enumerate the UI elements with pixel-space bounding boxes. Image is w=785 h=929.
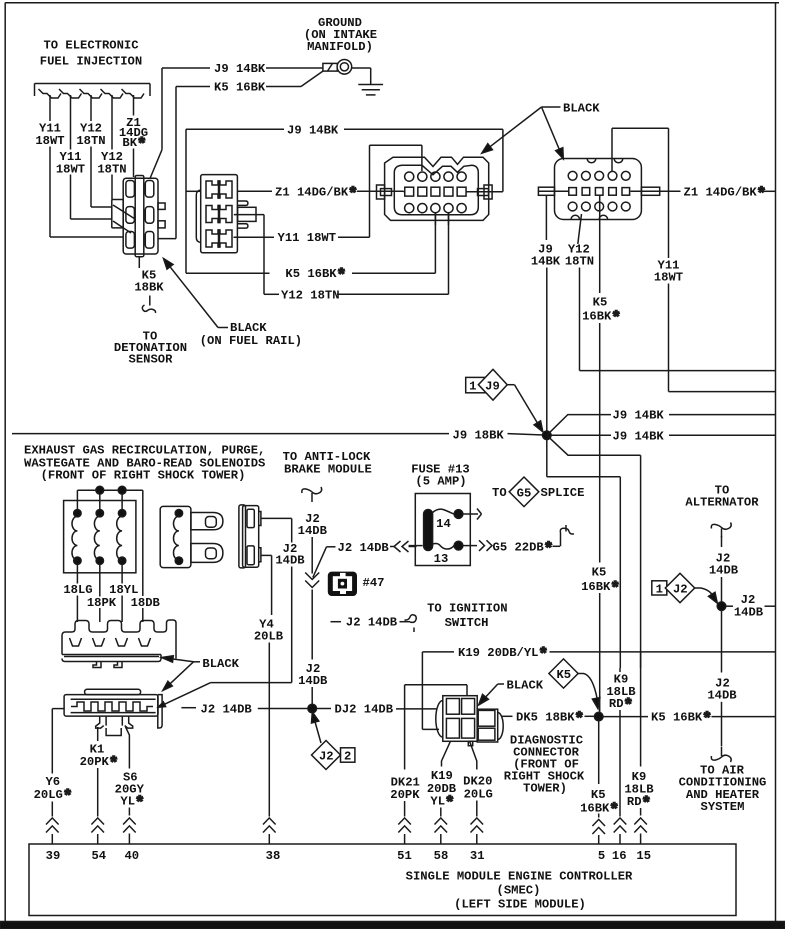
arrow J2-2 to junction	[312, 712, 322, 743]
svg-text:J9 18BK: J9 18BK	[453, 428, 505, 442]
wire K9 upper to SMEC 16	[614, 668, 627, 844]
symbol K5 diamond	[549, 659, 578, 688]
svg-text:SYSTEM: SYSTEM	[701, 800, 745, 814]
svg-text:BLACK: BLACK	[507, 678, 544, 692]
label+wire Y11 18WT (mid)	[278, 231, 370, 245]
label K9 18LB RD* (upper)	[606, 673, 636, 715]
symbol #47 (connector icon)	[328, 572, 357, 596]
svg-text:TOWER): TOWER)	[523, 781, 567, 795]
symbol 1-J2 diamond	[652, 573, 695, 602]
arrow to 4-cavity connector	[162, 656, 194, 662]
label Y12 18TN (below connector B)	[565, 242, 594, 268]
wire J2 antilock down	[305, 537, 319, 659]
svg-text:15: 15	[636, 849, 651, 863]
wire J9 18BK horizontal	[12, 434, 544, 435]
fuse output 13 inline connector	[463, 540, 492, 551]
label SINGLE MODULE ENGINE CONTROLLER (SMEC) (LEFT SIDE MODULE)	[406, 870, 633, 912]
wire from junction down to splice drop	[547, 439, 621, 668]
wire Y12 from connector B	[578, 214, 582, 244]
svg-text:14DB: 14DB	[298, 674, 328, 688]
wire to DJ2 junction	[258, 708, 309, 710]
svg-text:SWITCH: SWITCH	[445, 616, 489, 630]
label J2 14DB (above DJ2 dot)	[298, 662, 328, 688]
label K19 20DB/YL*	[458, 645, 548, 663]
wire 18YL	[121, 564, 123, 622]
label G5 22DB*	[493, 540, 561, 558]
svg-text:13: 13	[434, 552, 449, 566]
label Y12 18TN (pin4)	[97, 150, 126, 176]
label J2 14DB (anti-lock)	[298, 512, 328, 538]
svg-text:BLACK: BLACK	[202, 657, 239, 671]
label 18DB	[131, 596, 161, 610]
wire K5 16BK* right	[603, 710, 776, 728]
terminal 38	[266, 849, 281, 863]
label J2 14DB (alternator)	[709, 552, 739, 578]
connector to detonation sensor (6-cavity)	[112, 176, 165, 257]
fuse #13 box	[415, 494, 470, 566]
svg-text:14DB: 14DB	[275, 554, 305, 568]
wire J9 from connector B	[545, 195, 547, 240]
svg-text:ALTERNATOR: ALTERNATOR	[685, 496, 759, 510]
wire J2 to air conditioning	[721, 610, 723, 673]
label K1 20PK*	[80, 743, 119, 773]
label Y11 18WT (pin1)	[35, 122, 64, 148]
label DIAGNOSTIC CONNECTOR (FRONT OF RIGHT SHOCK TOWER)	[504, 733, 585, 795]
svg-text:EXHAUST GAS RECIRCULATION, PUR: EXHAUST GAS RECIRCULATION, PURGE,	[24, 443, 265, 457]
inline connector symbol <<	[390, 541, 417, 552]
wires below connector A	[435, 213, 448, 225]
svg-text:BRAKE MODULE: BRAKE MODULE	[284, 463, 372, 477]
wire K5 16BK to ground lug	[158, 71, 323, 239]
label 18PK	[87, 596, 117, 610]
svg-text:K5 16BK: K5 16BK	[214, 81, 266, 95]
wire K5 below junction	[598, 720, 600, 784]
wire K19 from diagnostic connector	[442, 741, 451, 766]
label J2 14DB (second)	[0, 0, 1, 1]
svg-text:(5 AMP): (5 AMP)	[415, 474, 466, 488]
wire J2 label second	[311, 658, 313, 661]
junction dot DJ2	[308, 704, 317, 713]
wire DK20 from diagnostic connector	[470, 741, 477, 769]
junction dot J9	[543, 431, 552, 440]
label K9 18LB RD* (lower)	[624, 770, 654, 813]
label K5 16BK* (upper)	[582, 295, 621, 327]
wire Y11 riser to 10-pin connector A	[370, 145, 422, 237]
break symbol to detonation sensor	[142, 296, 155, 314]
label BLACK (lower connectors)	[194, 657, 240, 671]
svg-text:20PK: 20PK	[390, 788, 420, 802]
arrow to connector B	[542, 107, 564, 159]
wire Z1 through connector A	[404, 191, 503, 193]
wire Y12 to right border	[580, 268, 776, 371]
svg-text:J2: J2	[319, 749, 334, 763]
label TO AIR CONDITIONING AND HEATER SYSTEM	[679, 763, 767, 814]
label BLACK (ON FUEL RAIL)	[200, 321, 302, 348]
wire DK21 over-top route	[405, 685, 467, 770]
svg-text:J9 14BK: J9 14BK	[287, 123, 339, 137]
label EXHAUST GAS RECIRCULATION...	[24, 443, 265, 482]
svg-text:K5: K5	[591, 788, 606, 802]
label Z1 14DG BK* (pin5)	[119, 116, 148, 154]
svg-text:MANIFOLD): MANIFOLD)	[307, 40, 373, 54]
wire DK5 18BK*	[502, 710, 595, 728]
svg-text:1: 1	[469, 380, 476, 394]
wire J9 down to junction	[546, 268, 548, 434]
junction dot K5	[594, 712, 603, 721]
svg-text:Y11 18WT: Y11 18WT	[278, 231, 337, 245]
svg-text:14: 14	[436, 517, 451, 531]
connector (solenoid harness, 4-cavity side view)	[62, 620, 176, 668]
svg-text:38: 38	[266, 849, 281, 863]
terminal 39	[46, 849, 61, 863]
label #47	[363, 576, 385, 590]
svg-text:18TN: 18TN	[76, 134, 105, 148]
svg-text:5: 5	[598, 849, 605, 863]
leader arrow BLACK on fuel rail	[164, 259, 229, 328]
svg-text:14DB: 14DB	[734, 606, 764, 620]
connector A (engine harness 10-pin)	[377, 157, 493, 220]
label GROUND ON INTAKE MANIFOLD	[304, 16, 377, 54]
EGR purge wastegate solenoids (3-coil)	[64, 490, 136, 573]
break to G5 splice (bracket)	[560, 525, 574, 546]
arrow to J2 connector	[163, 662, 194, 691]
label K5 16BK (top)	[214, 81, 266, 95]
wire Y12 riser to 10-pin connector A	[448, 212, 450, 294]
label J9 14BK (y129)	[287, 123, 339, 137]
svg-text:G5: G5	[517, 486, 532, 500]
break to anti-lock brake module	[302, 487, 322, 502]
label+wire Y12 18TN (mid)	[281, 288, 449, 302]
label K19 20DB YL*	[427, 769, 457, 812]
wire Y12 from E-connector square tab	[234, 215, 279, 295]
svg-text:18TN: 18TN	[565, 255, 594, 269]
wire Y11 to right border	[669, 284, 776, 392]
svg-text:1: 1	[656, 582, 663, 596]
svg-text:J9 14BK: J9 14BK	[613, 429, 665, 443]
label K5 16BK* (mid2)	[581, 565, 620, 597]
fuse element	[409, 509, 463, 550]
terminal 58	[434, 849, 449, 863]
svg-text:(ON FUEL RAIL): (ON FUEL RAIL)	[200, 334, 302, 348]
svg-text:SPLICE: SPLICE	[541, 486, 585, 500]
wire Y11 from E-connector	[234, 236, 275, 238]
label Y4 20LB	[254, 617, 284, 643]
connector bracket to electronic fuel injection with 5 pins	[35, 84, 151, 99]
svg-text:20LG: 20LG	[464, 787, 493, 801]
label J9 18BK	[453, 428, 505, 442]
arrow 1-J2 to junction	[695, 588, 718, 603]
label fuse terminal 13	[434, 552, 449, 566]
symbol 1-J9 diamond	[466, 369, 508, 400]
label FUSE #13 (5 AMP)	[411, 463, 470, 489]
wire K5 middle section	[599, 593, 601, 713]
label Y6 20LG*	[34, 775, 73, 805]
wire Z1 through connector B tabs	[538, 190, 680, 192]
svg-text:Y12 18TN: Y12 18TN	[281, 288, 340, 302]
label DK21 20PK	[390, 775, 420, 802]
label BLACK (diagnostic)	[498, 678, 544, 692]
SMEC controller box	[29, 844, 736, 916]
label J2 14DB (fuse feed)	[338, 541, 390, 555]
svg-text:18WT: 18WT	[35, 134, 64, 148]
wire J2 alternator down	[721, 577, 723, 603]
wire S6 from J2 connector	[126, 727, 130, 769]
fuse output arrow (14)	[463, 509, 482, 520]
connector (fuel rail, E-pattern 6-cavity)	[196, 175, 256, 253]
svg-text:40: 40	[124, 849, 139, 863]
svg-text:18BK: 18BK	[134, 280, 164, 294]
svg-text:39: 39	[46, 849, 61, 863]
terminal 15	[636, 849, 651, 863]
label 18YL	[109, 583, 138, 597]
wire Y11 from connector B pin	[612, 128, 669, 258]
wire K19 to SMEC 58	[435, 808, 448, 845]
wire K1 to SMEC 54	[91, 768, 104, 844]
label DJ2 14DB	[316, 702, 437, 716]
svg-text:K5: K5	[556, 668, 571, 682]
leader dash J2 14DB	[181, 707, 196, 709]
wire Y6 from J2 connector	[52, 709, 64, 774]
label+wire Z1 14DG/BK* (mid)	[238, 185, 404, 203]
wire Y4 from baro connector	[261, 555, 272, 615]
svg-text:J9: J9	[485, 380, 500, 394]
ground symbol	[358, 85, 383, 95]
label J2 14DB (to DJ2)	[201, 702, 253, 716]
svg-text:2: 2	[344, 749, 351, 763]
wire K1 from J2 connector	[97, 727, 99, 741]
svg-text:20LB: 20LB	[254, 629, 284, 643]
wire K5 down	[599, 323, 601, 563]
leader J2 14DB to fuse	[313, 547, 336, 578]
wire Y12 pin4	[111, 95, 113, 200]
terminal 16	[612, 849, 627, 863]
connector (SMEC side harness, J2 E-pattern)	[64, 689, 162, 735]
wire J2 from baro connector	[261, 518, 292, 542]
label J9 14BK (branch1)	[613, 409, 665, 423]
label J2 14DB (below junction)	[707, 676, 737, 702]
wire J9 14BK branch 2	[551, 434, 776, 436]
wire Y6 to SMEC 39	[46, 802, 59, 845]
label TO ELECTRONIC FUEL INJECTION	[40, 39, 142, 69]
wire Y11 pin2	[71, 95, 112, 219]
svg-text:18DB: 18DB	[131, 596, 161, 610]
wire J2 from solenoid bus to connector	[158, 683, 292, 708]
wire from junction down-right to K9 drop	[547, 435, 641, 668]
wire J2 to air conditioning lower	[711, 702, 731, 762]
arrow from 1-J9 to junction	[507, 385, 543, 432]
label TO ALTERNATOR	[685, 484, 759, 510]
svg-text:54: 54	[91, 849, 106, 863]
svg-text:18TN: 18TN	[97, 162, 126, 176]
label TO DETONATION SENSOR	[114, 330, 187, 367]
svg-text:14DB: 14DB	[707, 688, 737, 702]
label Y12 18TN (pin3)	[76, 122, 105, 148]
svg-text:TO: TO	[492, 486, 507, 500]
label Y11 18WT (right)	[654, 258, 683, 284]
svg-text:BLACK: BLACK	[230, 321, 267, 335]
ground lug ring terminal	[323, 60, 371, 84]
svg-text:TO IGNITION: TO IGNITION	[427, 602, 507, 616]
wire S6 to SMEC 40	[123, 808, 136, 845]
wire K5 riser to 10-pin connector A	[434, 212, 436, 273]
svg-text:(FRONT OF RIGHT SHOCK TOWER): (FRONT OF RIGHT SHOCK TOWER)	[41, 469, 246, 483]
wire K19 20DB/YL*	[422, 652, 775, 730]
wire Y4 down to SMEC 38	[263, 643, 276, 845]
label TO ANTI-LOCK BRAKE MODULE	[283, 450, 372, 477]
arrow K5 to junction	[578, 674, 600, 709]
svg-text:14BK: 14BK	[531, 255, 561, 269]
label Z1 14DG/BK* (right)	[684, 185, 776, 203]
terminal 40	[124, 849, 139, 863]
terminal 51	[397, 849, 412, 863]
wire J9 14BK to ground lug	[150, 68, 323, 178]
label Y11 18WT (pin2)	[56, 150, 85, 176]
svg-text:18WT: 18WT	[56, 162, 85, 176]
wire DK21 to SMEC 51	[398, 801, 411, 844]
label 18LG	[63, 583, 92, 597]
svg-text:DJ2 14DB: DJ2 14DB	[335, 702, 394, 716]
wire 18PK	[99, 564, 101, 622]
symbol J2-2 diamond	[312, 741, 355, 770]
connector B (engine harness 10-pin)	[538, 159, 659, 220]
label+wire K5 16BK* (mid)	[186, 267, 435, 285]
solenoid top bus 18DB	[77, 486, 142, 596]
arrow to connector A	[482, 107, 542, 153]
baro-read sensor connector	[239, 505, 261, 568]
wire 18DB lower	[142, 608, 144, 622]
label DK20 20LG	[463, 775, 493, 802]
label J2 14DB (baro)	[275, 542, 305, 567]
label fuse terminal 14	[436, 517, 451, 531]
wire DK20 to SMEC 31	[471, 801, 484, 845]
label J9 14BK (below connector B)	[531, 242, 561, 268]
wire K5 16BK* from connector B	[599, 195, 601, 293]
svg-text:BLACK: BLACK	[563, 101, 600, 115]
diagnostic connector (4+2 cavity)	[436, 696, 503, 746]
svg-text:J2 14DB: J2 14DB	[201, 702, 253, 716]
svg-text:J9 14BK: J9 14BK	[613, 409, 665, 423]
wire Z1 pin5	[133, 95, 135, 177]
wire K5 to SMEC 5	[592, 814, 605, 845]
svg-text:SINGLE MODULE ENGINE CONTROLLE: SINGLE MODULE ENGINE CONTROLLER	[406, 870, 633, 884]
svg-text:18WT: 18WT	[654, 271, 683, 285]
label TO IGNITION SWITCH	[427, 602, 507, 630]
leader J2 14DB ignition	[331, 615, 417, 632]
break to alternator	[711, 523, 731, 548]
label S6 20GY YL*	[115, 771, 145, 812]
svg-text:K5: K5	[593, 295, 608, 309]
wire J9 14BK branch 1	[547, 415, 776, 436]
svg-text:FUEL INJECTION: FUEL INJECTION	[40, 55, 142, 69]
purge solenoid with blade terminals	[160, 506, 223, 567]
svg-text:14DB: 14DB	[298, 524, 328, 538]
svg-text:51: 51	[397, 849, 412, 863]
arrow to diagnostic connector	[479, 684, 498, 705]
label J2 14DB (right of dot)	[725, 593, 776, 619]
svg-text:14DB: 14DB	[709, 564, 739, 578]
svg-text:(LEFT SIDE MODULE): (LEFT SIDE MODULE)	[454, 897, 586, 911]
wire K5 18BK from detonation connector	[138, 257, 140, 268]
terminal 5	[598, 849, 605, 863]
wire J2 down to lower connector	[291, 567, 293, 683]
svg-text:#47: #47	[363, 576, 385, 590]
terminal 54	[91, 849, 106, 863]
svg-text:J2 14DB: J2 14DB	[338, 541, 390, 555]
label TO G5 SPLICE	[492, 477, 584, 507]
wire bus vertical x186 (J9/Z1/K5 tie)	[185, 129, 187, 273]
svg-text:31: 31	[470, 849, 485, 863]
label J9 14BK (top)	[214, 62, 266, 76]
label K5 18BK	[134, 268, 164, 294]
svg-text:K5: K5	[592, 565, 607, 579]
svg-text:18PK: 18PK	[87, 596, 117, 610]
wire K9 lower to SMEC 15	[634, 652, 647, 844]
svg-text:J2: J2	[673, 583, 688, 597]
wire J2 to DJ2 junction	[311, 687, 313, 705]
wire Y11 pin1	[50, 95, 123, 237]
svg-text:16: 16	[612, 849, 627, 863]
label K5 16BK* (lower)	[580, 788, 619, 819]
terminal 31	[470, 849, 485, 863]
wire Y12 pin3	[91, 95, 112, 207]
svg-text:SENSOR: SENSOR	[129, 353, 174, 367]
svg-text:(SMEC): (SMEC)	[497, 883, 541, 897]
svg-text:J9 14BK: J9 14BK	[214, 62, 266, 76]
svg-text:TO ELECTRONIC: TO ELECTRONIC	[43, 39, 138, 53]
svg-text:J2 14DB: J2 14DB	[346, 616, 398, 630]
wire J9 14BK (y129) to connector A	[186, 129, 503, 191]
svg-text:58: 58	[434, 849, 449, 863]
label BLACK (connector shells)	[542, 101, 601, 115]
wire Z1 from E-connector	[186, 190, 201, 192]
label J9 14BK (branch2)	[613, 429, 665, 443]
junction dot J2 alternator	[717, 602, 726, 611]
wire 18LG	[76, 564, 78, 622]
